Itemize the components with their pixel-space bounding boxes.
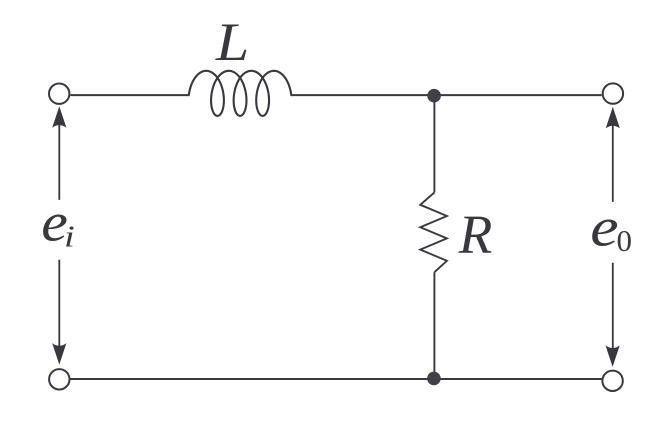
terminal circle bottom-right: [602, 371, 622, 391]
terminal circle top-right: [603, 83, 623, 103]
inductor L coil: [189, 71, 291, 116]
wire resistor bottom vertical: [433, 272, 435, 379]
terminal circle bottom-left: [49, 369, 69, 389]
wire top-right horizontal: [291, 94, 601, 96]
node dot top: [427, 89, 441, 103]
arrowhead right up: [606, 107, 620, 128]
arrow line right lower: [612, 263, 614, 361]
arrow line left upper: [58, 112, 60, 200]
terminal circle top-left: [49, 84, 69, 104]
node dot bottom: [427, 372, 441, 386]
arrowhead left up: [52, 106, 66, 128]
svg-text:i: i: [64, 219, 75, 253]
arrow line right upper: [612, 113, 614, 202]
svg-text:L: L: [215, 13, 249, 73]
arrow line left lower: [58, 260, 60, 359]
wire top-left horizontal: [70, 94, 188, 96]
resistor R zigzag: [420, 193, 447, 273]
arrowhead left down: [52, 343, 66, 365]
svg-text:e: e: [590, 197, 618, 258]
svg-text:R: R: [458, 204, 493, 265]
arrowhead right down: [606, 345, 620, 367]
wire resistor top vertical: [433, 95, 435, 192]
wire bottom horizontal: [71, 378, 602, 380]
svg-text:0: 0: [617, 223, 633, 258]
